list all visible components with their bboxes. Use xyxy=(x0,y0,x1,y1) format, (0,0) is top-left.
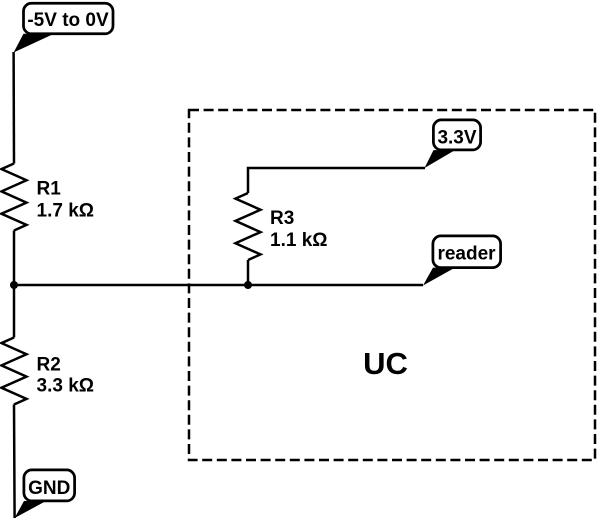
svg-text:UC: UC xyxy=(363,346,408,381)
svg-text:GND: GND xyxy=(28,478,70,499)
wire xyxy=(13,405,16,519)
svg-text:R3: R3 xyxy=(270,208,294,229)
wire xyxy=(12,52,15,164)
net label 3.3V xyxy=(425,120,481,168)
resistor R2 xyxy=(2,338,95,405)
svg-text:1.1 kΩ: 1.1 kΩ xyxy=(270,230,328,251)
wire xyxy=(13,285,16,338)
node junction left xyxy=(10,281,18,289)
node junction R3 xyxy=(244,281,252,289)
svg-text:R2: R2 xyxy=(37,355,61,376)
svg-text:1.7 kΩ: 1.7 kΩ xyxy=(37,201,95,222)
resistor R1 xyxy=(2,164,95,231)
UC block dashed box xyxy=(189,110,595,460)
svg-text:3.3 kΩ: 3.3 kΩ xyxy=(37,376,95,397)
wire xyxy=(247,260,250,285)
svg-text:-5V to 0V: -5V to 0V xyxy=(27,10,109,31)
wire xyxy=(248,168,425,193)
wire xyxy=(14,284,423,287)
ground label GND xyxy=(15,470,75,518)
wire xyxy=(13,231,16,286)
svg-text:reader: reader xyxy=(437,244,496,265)
net label reader xyxy=(423,236,501,286)
svg-text:R1: R1 xyxy=(37,179,62,200)
svg-text:3.3V: 3.3V xyxy=(437,128,476,149)
resistor R3 xyxy=(236,193,328,260)
net label -5V to 0V xyxy=(14,3,113,52)
